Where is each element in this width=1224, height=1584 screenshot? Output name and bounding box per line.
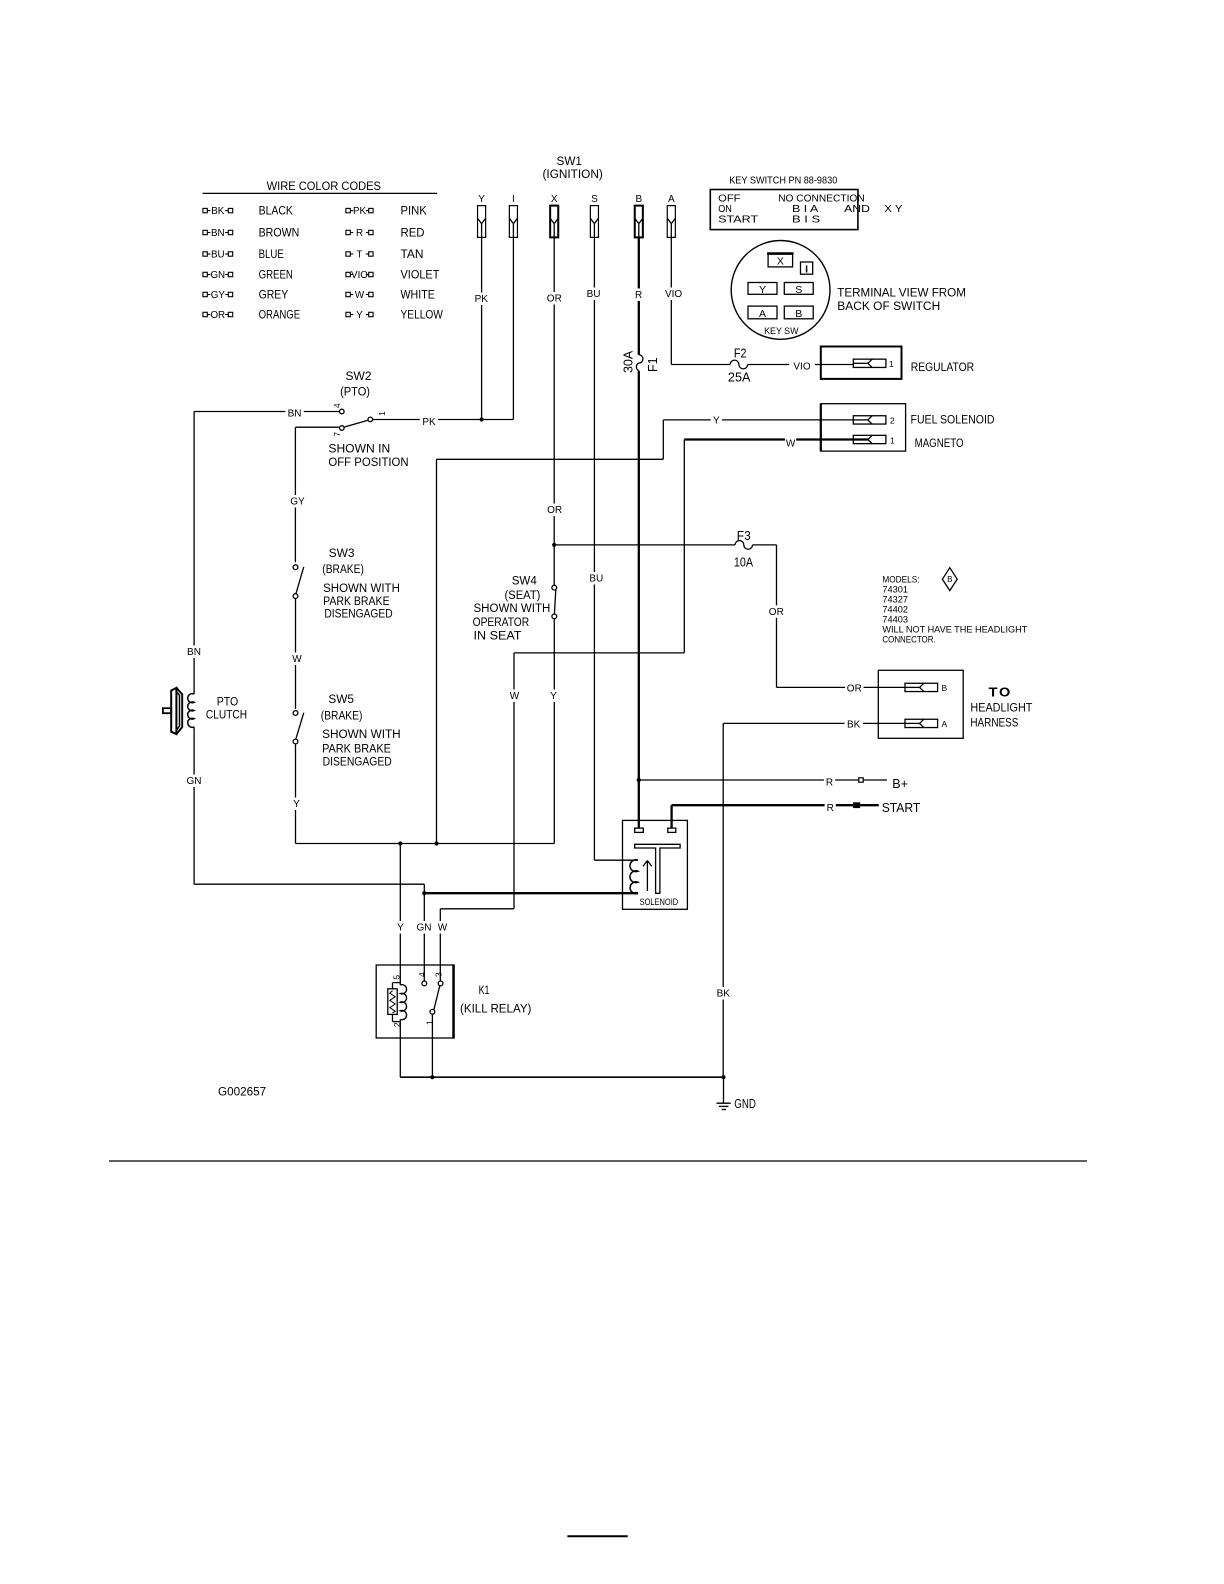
svg-text:F2: F2 [734, 347, 747, 361]
wire color code BN = BROWN [203, 226, 299, 240]
svg-text:VIO: VIO [351, 270, 368, 281]
switch SW4 labels [473, 574, 551, 643]
svg-text:GREEN: GREEN [259, 268, 293, 282]
svg-text:FUEL SOLENOID: FUEL SOLENOID [911, 415, 995, 427]
svg-text:K1: K1 [479, 985, 490, 997]
svg-text:I: I [512, 194, 515, 205]
svg-text:BN: BN [187, 647, 201, 658]
svg-text:HARNESS: HARNESS [970, 717, 1018, 729]
wire R to START terminal [672, 802, 879, 828]
svg-text:A: A [942, 719, 948, 729]
svg-text:YELLOW: YELLOW [401, 308, 444, 322]
SW1 pin Y [478, 194, 486, 237]
SW1 pin A [667, 194, 675, 237]
svg-text:TO: TO [989, 685, 1012, 700]
wire BK from headlight connector pin A to ground rail [714, 718, 905, 1077]
junction PK at SW1 pin Y lead [480, 417, 484, 421]
svg-text:BROWN: BROWN [259, 226, 300, 240]
relay K1 pin 4 contact [417, 972, 427, 986]
SW1 pin B [635, 194, 643, 237]
wire VIO from fuse F2 to regulator [748, 360, 854, 373]
svg-text:BLACK: BLACK [259, 204, 293, 218]
svg-text:TAN: TAN [401, 247, 424, 261]
svg-text:R: R [635, 290, 642, 301]
SW1 pin X [550, 194, 558, 237]
ground symbol GND [717, 1077, 756, 1111]
solenoid terminal (battery R) [635, 828, 644, 832]
wire color code OR = ORANGE [203, 308, 300, 322]
svg-text:BLUE: BLUE [259, 247, 284, 261]
diamond flag B [942, 568, 957, 591]
svg-text:VIO: VIO [665, 289, 682, 300]
junction OR / F3 branch [552, 543, 556, 547]
wire R to B+ terminal [639, 776, 887, 789]
svg-text:5: 5 [391, 975, 401, 980]
switch SW5 (BRAKE) [293, 711, 304, 744]
svg-text:F3: F3 [737, 529, 751, 543]
svg-text:(BRAKE): (BRAKE) [322, 564, 364, 576]
svg-text:PK: PK [422, 417, 436, 428]
svg-text:GY: GY [211, 290, 226, 301]
fuse F3 10A [734, 529, 754, 569]
svg-text:SW1: SW1 [557, 154, 583, 168]
svg-text:X: X [551, 194, 558, 205]
fuel solenoid / magneto connector box [821, 404, 906, 451]
svg-text:SHOWN WITH: SHOWN WITH [323, 583, 400, 595]
svg-text:OPERATOR: OPERATOR [473, 617, 530, 629]
svg-text:BK: BK [211, 206, 225, 217]
wire color code T = TAN [346, 247, 424, 261]
wire PK from SW2 pin 1 to SW1 [373, 415, 514, 428]
terminal view caption [837, 287, 966, 313]
svg-text:BK: BK [717, 989, 731, 1000]
svg-text:W: W [438, 923, 448, 934]
svg-text:CONNECTOR.: CONNECTOR. [882, 635, 935, 646]
solenoid plunger T [635, 844, 680, 893]
svg-text:IN SEAT: IN SEAT [474, 630, 522, 642]
svg-text:B+: B+ [892, 777, 908, 791]
relay K1 coil and resistor [388, 965, 407, 1077]
svg-text:PARK BRAKE: PARK BRAKE [322, 744, 391, 756]
wire GN from PTO clutch to K1 pin 4 [194, 884, 433, 981]
svg-text:REGULATOR: REGULATOR [911, 362, 974, 374]
wire Y from bottom rail to K1 pin 5 [395, 844, 406, 966]
headlight harness connector box [878, 670, 963, 738]
svg-text:SOLENOID: SOLENOID [640, 897, 679, 907]
wire PK from SW1 pin Y [472, 237, 490, 419]
svg-text:BU: BU [587, 289, 601, 300]
svg-text:OR: OR [847, 684, 862, 695]
regulator connector box U-REG [821, 347, 902, 379]
svg-text:GND: GND [734, 1097, 756, 1111]
fuse F2 25A [728, 347, 751, 385]
svg-text:VIOLET: VIOLET [401, 268, 441, 282]
SW1 pin S [590, 194, 598, 237]
svg-text:AND: AND [844, 203, 870, 215]
svg-text:1: 1 [890, 435, 895, 445]
key switch table row OFF / NO CONNECTION [718, 193, 865, 205]
svg-text:BN: BN [211, 228, 225, 239]
svg-text:(IGNITION): (IGNITION) [543, 169, 603, 181]
svg-text:B: B [635, 194, 642, 205]
svg-text:G002657: G002657 [218, 1087, 266, 1099]
wire Y from SW4 to bottom rail [548, 619, 559, 844]
svg-text:R: R [356, 228, 363, 239]
relay K1 pin 3 contact [433, 972, 443, 986]
svg-text:2: 2 [392, 1022, 402, 1027]
svg-text:W: W [355, 290, 365, 301]
solenoid terminal (start R) [668, 828, 676, 832]
svg-text:OFF POSITION: OFF POSITION [328, 457, 408, 469]
wire color code BK = BLACK [203, 204, 293, 218]
key switch terminal I [801, 262, 813, 275]
svg-text:PTO: PTO [217, 696, 239, 708]
magneto connector pin 1 [853, 435, 895, 445]
svg-text:S: S [795, 284, 802, 296]
SW2 pin 7 [332, 426, 344, 437]
headlight connector pin A [905, 719, 948, 729]
wire GY from SW2 pin 7 to SW3 [288, 427, 339, 562]
svg-text:B I S: B I S [792, 214, 820, 226]
SW2 switch arm [344, 420, 368, 427]
key switch terminal S [784, 283, 813, 296]
svg-text:S: S [591, 194, 598, 205]
svg-text:X: X [777, 255, 784, 267]
wire from K1 pin 1 to ground rail [431, 1014, 433, 1077]
svg-text:DISENGAGED: DISENGAGED [324, 609, 392, 621]
key switch table row ON / B I A AND X Y [718, 203, 902, 215]
svg-text:F1: F1 [646, 357, 660, 372]
relay K1 switch arm [434, 986, 440, 1010]
svg-text:Y: Y [293, 799, 300, 810]
svg-text:BU: BU [589, 574, 603, 585]
svg-text:OR: OR [210, 310, 225, 321]
svg-text:BN: BN [288, 409, 302, 420]
svg-text:X Y: X Y [884, 203, 902, 215]
svg-text:(KILL RELAY): (KILL RELAY) [460, 1004, 532, 1016]
svg-text:PK: PK [475, 294, 489, 305]
key switch position table box [710, 190, 858, 230]
svg-text:TERMINAL VIEW FROM: TERMINAL VIEW FROM [837, 287, 966, 299]
PTO clutch [163, 412, 203, 885]
svg-text:1: 1 [889, 359, 894, 369]
svg-text:WHITE: WHITE [401, 288, 435, 302]
switch SW4 (SEAT) [552, 585, 557, 619]
junction bottom rail / Y fuel solenoid lead [434, 841, 438, 845]
wire color codes table title [203, 179, 438, 193]
wire BN from PTO clutch to SW2 pin 4 [194, 407, 339, 420]
junction R / B+ branch [637, 778, 641, 782]
svg-text:RED: RED [401, 226, 425, 240]
svg-text:W: W [786, 439, 796, 450]
svg-text:2: 2 [890, 416, 895, 426]
svg-text:MAGNETO: MAGNETO [915, 438, 964, 450]
wire W between SW3 and SW5 [291, 599, 302, 709]
svg-text:KEY SW: KEY SW [764, 326, 798, 337]
key switch terminal view circle KEY SW [731, 241, 830, 340]
switch SW3 (BRAKE) [293, 565, 304, 599]
wire W magneto kill lead [437, 437, 853, 981]
ground rail wire [400, 1076, 723, 1078]
wire color code PK = PINK [346, 204, 427, 218]
junction ground rail / K1 pin 1 [430, 1075, 434, 1079]
svg-text:BU: BU [211, 249, 225, 260]
regulator connector pin 1 [853, 359, 894, 369]
switch SW5 labels [321, 692, 401, 769]
svg-text:R: R [827, 803, 834, 814]
svg-text:VIO: VIO [793, 362, 810, 373]
svg-text:25A: 25A [728, 370, 751, 384]
svg-text:SW2: SW2 [346, 369, 372, 383]
wire color code W = WHITE [346, 288, 435, 302]
svg-text:KEY SWITCH PN 88-9830: KEY SWITCH PN 88-9830 [729, 176, 837, 187]
svg-text:WIRE COLOR CODES: WIRE COLOR CODES [267, 179, 381, 193]
starter solenoid box [623, 820, 688, 909]
wire BU from SW1 pin S to solenoid coil [584, 237, 638, 860]
svg-text:BK: BK [847, 719, 861, 730]
note SHOWN IN OFF POSITION [328, 444, 408, 470]
connector SW1 (IGNITION) title [543, 154, 603, 181]
svg-text:OR: OR [547, 294, 562, 305]
footer rule [109, 1160, 1087, 1162]
wire VIO from SW1 pin A to fuse F2 [661, 237, 730, 364]
svg-text:CLUTCH: CLUTCH [206, 709, 247, 721]
svg-text:Y: Y [759, 284, 766, 296]
wire color code GY = GREY [203, 288, 288, 302]
fuse F1 30A [621, 350, 660, 373]
svg-text:30A: 30A [621, 350, 635, 373]
note MODELS without headlight connector [882, 574, 1027, 645]
wire color code R = RED [346, 226, 425, 240]
svg-text:SHOWN WITH: SHOWN WITH [474, 603, 551, 615]
svg-text:START: START [882, 801, 921, 815]
wire from SW1 pin I [512, 237, 514, 419]
page number rule [567, 1535, 627, 1537]
svg-text:SHOWN WITH: SHOWN WITH [322, 729, 401, 741]
headlight connector pin B [905, 683, 948, 693]
svg-text:10A: 10A [734, 555, 754, 569]
solenoid coil [630, 860, 638, 894]
key switch terminal X [767, 254, 794, 268]
svg-text:OR: OR [769, 607, 784, 618]
svg-text:I: I [805, 263, 808, 275]
wire OR from SW1 pin X [545, 237, 564, 585]
wire color code Y = YELLOW [346, 308, 444, 322]
SW1 pin I [509, 194, 517, 237]
svg-text:OR: OR [547, 505, 562, 516]
relay K1 labels [460, 985, 532, 1015]
svg-text:Y: Y [713, 415, 720, 426]
wire Y bottom rail from SW5 to SW4 [296, 843, 555, 845]
svg-text:Y: Y [356, 310, 363, 321]
svg-text:1: 1 [377, 411, 387, 416]
svg-text:GREY: GREY [259, 288, 289, 302]
svg-text:Y: Y [550, 691, 557, 702]
svg-text:B: B [942, 683, 948, 693]
svg-text:SHOWN IN: SHOWN IN [328, 444, 390, 456]
svg-text:7: 7 [332, 432, 342, 437]
relay K1 box [376, 964, 453, 1038]
svg-text:3: 3 [433, 972, 443, 977]
wire color code BU = BLUE [203, 247, 284, 261]
svg-text:4: 4 [417, 972, 427, 977]
svg-text:(BRAKE): (BRAKE) [321, 711, 363, 723]
svg-text:B: B [947, 575, 952, 584]
svg-text:SW3: SW3 [329, 546, 355, 560]
svg-text:A: A [668, 194, 675, 205]
svg-text:B: B [795, 308, 802, 320]
svg-text:W: W [510, 691, 520, 702]
wire kill (thick) from GN junction to solenoid coil [424, 892, 638, 894]
svg-text:GN: GN [210, 270, 225, 281]
svg-text:GY: GY [290, 497, 305, 508]
wire OR from fuse F3 to headlight connector pin B [753, 545, 906, 695]
svg-text:BACK OF SWITCH: BACK OF SWITCH [837, 301, 940, 313]
svg-text:SW4: SW4 [512, 574, 537, 588]
svg-text:PARK BRAKE: PARK BRAKE [323, 596, 390, 608]
svg-text:Y: Y [397, 923, 404, 934]
svg-text:4: 4 [332, 403, 342, 408]
switch SW2 (PTO) title [340, 369, 372, 399]
wire R from SW1 pin B through fuse F1 [633, 237, 644, 828]
label PTO CLUTCH [206, 696, 247, 721]
key switch table row START / B I S [718, 214, 820, 226]
wire color code VIO = VIOLET [346, 268, 440, 282]
svg-text:R: R [826, 778, 833, 789]
wire OR from junction to fuse F3 [554, 544, 735, 546]
wire color code GN = GREEN [203, 268, 293, 282]
svg-text:ORANGE: ORANGE [259, 308, 301, 322]
SW2 pin 1 [368, 411, 387, 422]
svg-text:(PTO): (PTO) [340, 387, 370, 399]
junction GN / solenoid kill wire [422, 891, 426, 895]
fuel solenoid connector pin 2 [853, 416, 895, 426]
svg-text:PINK: PINK [401, 204, 427, 218]
svg-text:START: START [718, 214, 759, 226]
svg-text:Y: Y [478, 194, 485, 205]
svg-text:GN: GN [187, 776, 202, 787]
wire Y from SW5 to bottom rail [291, 744, 302, 844]
label TO HEADLIGHT HARNESS [970, 685, 1032, 730]
junction bottom rail / K1 pin 5 lead [398, 841, 402, 845]
switch SW3 labels [322, 546, 400, 620]
SW2 pin 4 [332, 403, 344, 414]
svg-text:T: T [357, 249, 363, 260]
svg-text:(SEAT): (SEAT) [505, 590, 541, 602]
key switch terminal Y [748, 283, 777, 296]
svg-text:PK: PK [353, 206, 367, 217]
junction ground rail / BK [721, 1075, 725, 1079]
key switch terminal B [784, 306, 813, 320]
key switch terminal A [748, 306, 777, 320]
svg-text:DISENGAGED: DISENGAGED [323, 757, 392, 769]
svg-text:A: A [759, 308, 766, 320]
svg-text:SW5: SW5 [328, 692, 354, 706]
svg-text:GN: GN [417, 923, 432, 934]
svg-text:W: W [292, 654, 302, 665]
wire Y to fuel solenoid pin 2 [437, 414, 854, 844]
svg-text:HEADLIGHT: HEADLIGHT [970, 702, 1032, 714]
solenoid plunger arrow [643, 861, 652, 892]
relay K1 pin 1 contact [425, 1009, 435, 1025]
